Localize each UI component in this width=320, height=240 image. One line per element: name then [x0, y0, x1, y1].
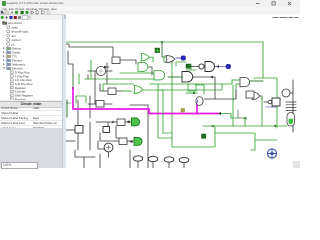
- wire: [254, 42, 277, 128]
- wire: [108, 152, 110, 157]
- wire: [117, 60, 136, 64]
- wire: [150, 83, 222, 85]
- led L1 (green): [127, 120, 130, 123]
- junction arrow: [244, 117, 247, 120]
- oval O2: [148, 156, 158, 161]
- wire: [89, 122, 91, 150]
- wire: [215, 133, 277, 150]
- wire: [203, 125, 287, 127]
- wire: [94, 71, 96, 104]
- wire: [66, 129, 75, 131]
- wire: [168, 76, 182, 78]
- node J1: [161, 41, 163, 43]
- wire: [190, 66, 199, 68]
- wire: [261, 100, 263, 126]
- wire: [66, 140, 75, 142]
- wire: [290, 92, 293, 94]
- menu bar: [0, 7, 300, 11]
- label dashes: [273, 17, 298, 19]
- or-gate U5: [252, 92, 260, 100]
- wire: [99, 154, 101, 168]
- wire: [122, 90, 132, 92]
- wire: [292, 80, 294, 132]
- wire: [125, 121, 133, 123]
- wire: [78, 74, 80, 84]
- wire: [193, 77, 215, 99]
- wire: [90, 60, 92, 79]
- wire: [232, 79, 240, 81]
- oval O3: [164, 157, 174, 162]
- wire: [158, 84, 172, 138]
- window buttons: [250, 0, 300, 7]
- wire: [98, 141, 105, 149]
- wire: [264, 101, 268, 103]
- wire: [232, 85, 234, 126]
- xor-gate U7 (circle): [96, 66, 105, 75]
- node J4: [104, 66, 106, 68]
- svg-text:Random: Random: [15, 97, 27, 100]
- wire (floating): [266, 106, 276, 108]
- wire: [147, 134, 149, 168]
- wire: [204, 90, 236, 99]
- wire: [96, 121, 108, 123]
- wire: [158, 89, 163, 91]
- junction arrow: [210, 76, 213, 79]
- wire: [127, 140, 133, 142]
- wire: [196, 85, 204, 94]
- gray area below attributes: [0, 128, 62, 161]
- pin P5 (blue): [226, 64, 231, 68]
- pin P1: [155, 48, 160, 53]
- wire: [147, 105, 149, 134]
- and-gate U12: [182, 72, 193, 82]
- wire: [103, 84, 134, 91]
- wire: [85, 78, 154, 80]
- flip-flop X10: [103, 127, 110, 133]
- wire: [106, 63, 108, 84]
- flip-flop X6: [75, 126, 83, 134]
- wire: [89, 96, 91, 118]
- probe box (green outline): [188, 84, 196, 91]
- wire: [83, 157, 85, 168]
- wire: [176, 62, 186, 66]
- flip-flop X5: [119, 138, 127, 145]
- wire: [88, 103, 112, 105]
- wire: [148, 67, 152, 75]
- splitter S1: [286, 102, 296, 110]
- flip-flop X2: [108, 88, 116, 95]
- attribute table: [0, 101, 62, 128]
- anchor icon: [267, 149, 276, 158]
- oval O1: [133, 156, 143, 161]
- wire: [250, 80, 264, 82]
- pin P4 (blue): [181, 56, 186, 60]
- wire: [164, 56, 215, 147]
- buffer U10 (ellipse): [196, 97, 203, 106]
- or-gate U1: [166, 56, 175, 63]
- flip-flop X3: [96, 101, 104, 108]
- wire: [72, 74, 74, 88]
- scrollbar corner: [293, 161, 300, 168]
- wire: [87, 75, 89, 79]
- selected wire branch (magenta): [196, 105, 198, 114]
- pin P2: [186, 64, 190, 68]
- wire: [76, 96, 86, 103]
- wire: [246, 94, 252, 98]
- wire: [66, 41, 263, 43]
- wire: [186, 92, 197, 94]
- pin P3: [202, 134, 206, 138]
- canvas: [66, 14, 300, 168]
- main toolbar: [0, 10, 300, 16]
- wire: [149, 57, 153, 62]
- wire: [236, 84, 240, 98]
- wire: [215, 66, 226, 68]
- wire: [88, 70, 112, 72]
- wire: [120, 72, 154, 74]
- transistor Q1 (yellow): [181, 109, 185, 113]
- wire: [138, 161, 184, 168]
- xor-gate U9 (circle): [282, 89, 290, 97]
- wire: [176, 57, 181, 59]
- register pill: [287, 113, 295, 127]
- and-gate U4: [240, 78, 250, 87]
- led L2 (green): [130, 140, 133, 143]
- flip-flop X1: [112, 57, 120, 64]
- flip-flop X7: [246, 91, 254, 98]
- junction arrow: [218, 112, 221, 115]
- wire: [116, 126, 119, 138]
- node J2: [72, 87, 74, 89]
- and-gate U13: [205, 62, 215, 72]
- wire: [75, 150, 95, 157]
- svg-text:cpu-circuit: cpu-circuit: [8, 21, 22, 25]
- zoom bar: [0, 161, 62, 169]
- junction arrow: [273, 125, 276, 128]
- wire: [66, 100, 68, 117]
- oval O4: [179, 157, 189, 162]
- not-gate U11: [199, 64, 204, 69]
- wire: [260, 96, 263, 100]
- node J3: [193, 92, 195, 94]
- wire: [186, 64, 196, 70]
- wire: [105, 66, 109, 68]
- explorer mini toolbar: [0, 15, 62, 20]
- title bar: [0, 0, 300, 7]
- wire: [66, 102, 71, 104]
- junction arrow: [216, 65, 219, 68]
- junction arrow: [111, 121, 114, 124]
- wire: [66, 44, 113, 56]
- wire: [162, 42, 166, 57]
- wire: [238, 110, 246, 118]
- and-gate U2 (green): [154, 71, 165, 80]
- junction arrow: [211, 125, 214, 128]
- wire: [108, 122, 117, 127]
- and-gate U6 (green): [138, 63, 148, 72]
- flip-flop X4: [117, 119, 125, 126]
- or-gate U3 (green): [134, 86, 142, 94]
- wire: [130, 104, 148, 106]
- explorer tree: [0, 20, 62, 101]
- selected wire (magenta): [73, 88, 218, 114]
- flip-flop X8: [272, 98, 280, 106]
- wire: [100, 84, 122, 91]
- not bubble: [268, 100, 272, 104]
- wire: [100, 133, 119, 141]
- wire: [68, 51, 73, 74]
- wire: [143, 80, 232, 90]
- wire: [221, 114, 245, 127]
- wire: [163, 90, 172, 133]
- wire: [77, 100, 79, 150]
- splitter: [62, 14, 68, 168]
- xor-gate U8 (circle): [104, 143, 113, 152]
- or-gate U14 (green): [141, 54, 149, 61]
- wire: [129, 150, 131, 168]
